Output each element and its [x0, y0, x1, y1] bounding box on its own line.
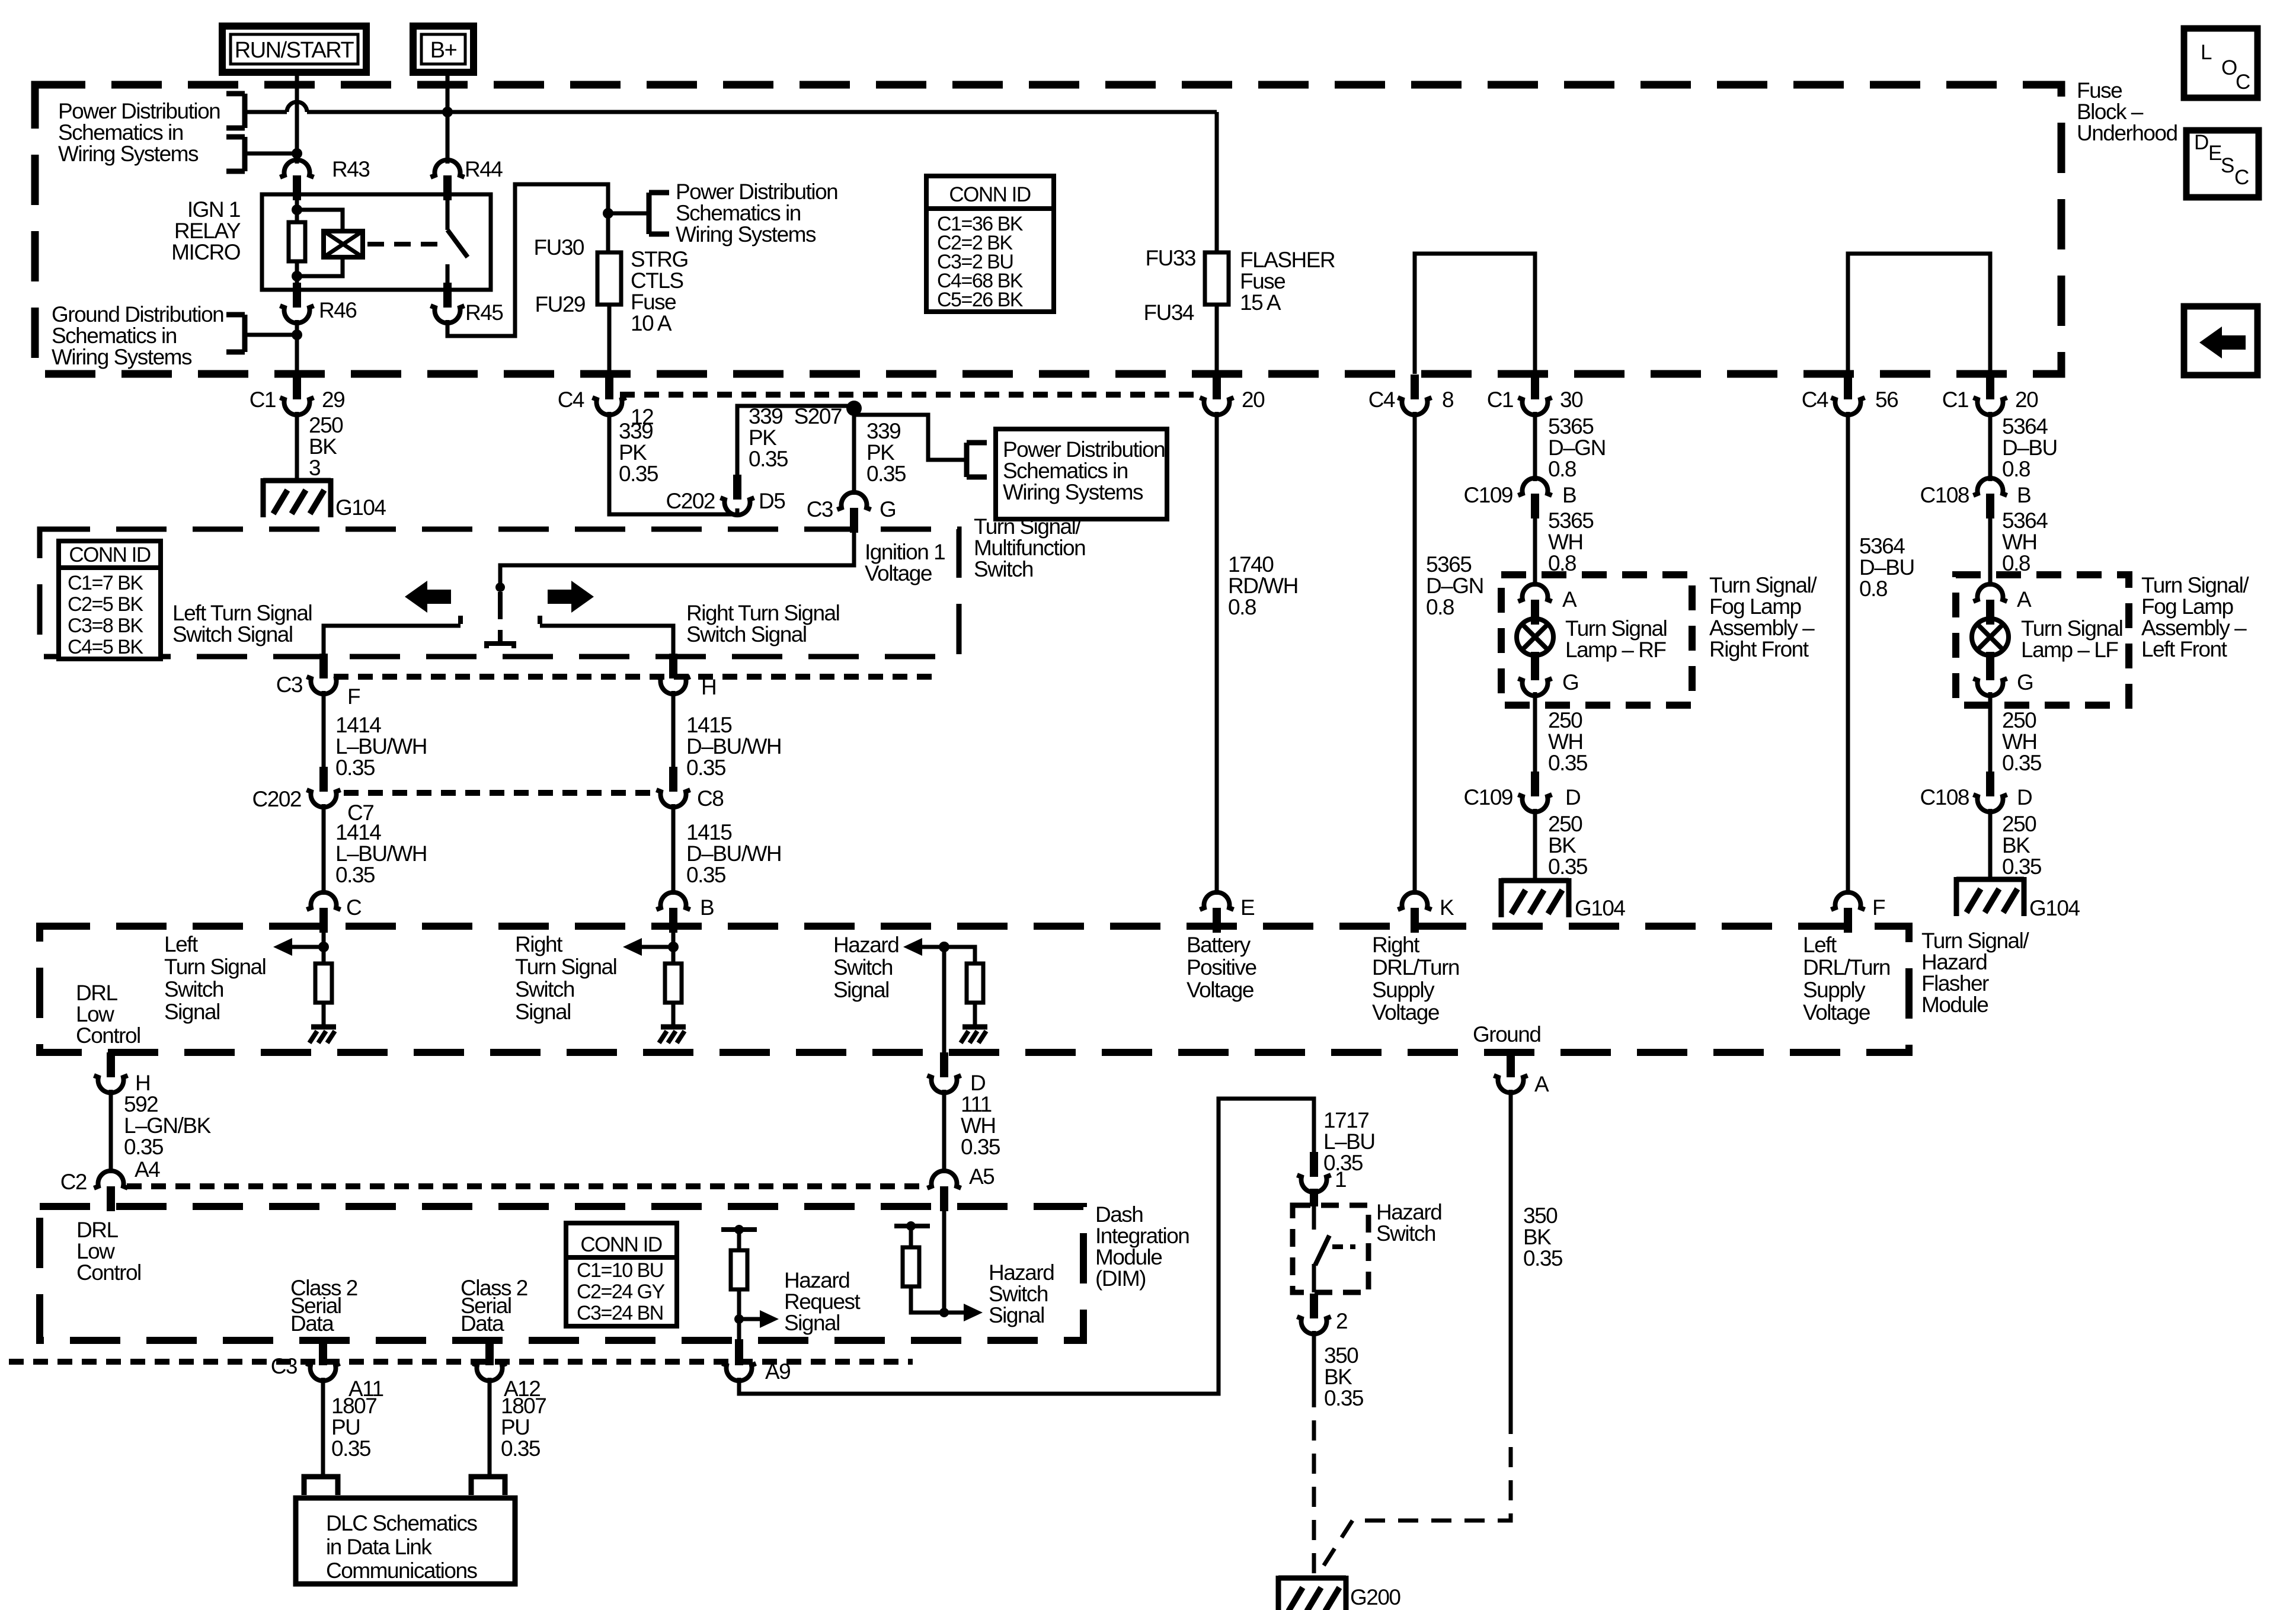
- connector flasher terminal E: [1200, 892, 1234, 933]
- svg-text:1415: 1415: [686, 820, 732, 844]
- node hazard request supply: [734, 1225, 744, 1234]
- svg-text:1807: 1807: [501, 1394, 546, 1418]
- svg-text:A9: A9: [765, 1359, 790, 1384]
- svg-text:C2: C2: [60, 1170, 87, 1194]
- svg-text:PK: PK: [749, 425, 777, 450]
- arrow right turn signal: [623, 938, 673, 956]
- svg-text:5364: 5364: [1859, 534, 1905, 558]
- hazard request resistor: [731, 1250, 747, 1289]
- wire D5 up to S207 junction: [737, 406, 854, 476]
- svg-text:0.35: 0.35: [619, 462, 658, 486]
- svg-text:5365: 5365: [1548, 508, 1594, 533]
- svg-text:0.8: 0.8: [1859, 577, 1887, 601]
- svg-text:C4: C4: [1368, 388, 1395, 412]
- svg-text:L–GN/BK: L–GN/BK: [124, 1113, 212, 1138]
- svg-text:30: 30: [1560, 388, 1583, 412]
- connector flasher terminal F: [1831, 892, 1865, 933]
- svg-text:0.35: 0.35: [1523, 1246, 1563, 1270]
- right turn arrow: [548, 581, 594, 613]
- svg-text:Schematics in: Schematics in: [676, 201, 801, 225]
- label 250 WH 0.35 (RF): [1548, 708, 1588, 775]
- wire B+ feed down to relay: [446, 72, 450, 164]
- connector C3 (DIM) terminal A11: [306, 1339, 340, 1381]
- connector hazard switch terminal 1: [1297, 1152, 1331, 1192]
- connector C3 terminal H (switch): [657, 654, 690, 694]
- label 5365 D-GN 0.8: [1548, 414, 1606, 481]
- wire left turn contact to C3-F: [324, 626, 461, 657]
- svg-text:G: G: [880, 497, 896, 521]
- svg-text:S207: S207: [794, 404, 842, 428]
- svg-text:FU29: FU29: [535, 292, 585, 316]
- wire ground reference to relay return: [245, 333, 297, 337]
- svg-text:Voltage: Voltage: [1803, 1000, 1870, 1025]
- svg-text:Schematics in: Schematics in: [52, 324, 177, 348]
- label H (switch): [701, 675, 716, 699]
- svg-text:Left: Left: [1803, 933, 1837, 957]
- label G (RF): [1562, 670, 1578, 694]
- label A (RF): [1562, 587, 1577, 612]
- connector flasher terminal B: [657, 892, 690, 933]
- label A12: [504, 1377, 540, 1401]
- label FU29: [535, 292, 585, 316]
- label F (flasher): [1872, 895, 1885, 920]
- wire coil winding branch top: [297, 210, 343, 231]
- node relay coil bottom: [292, 271, 302, 281]
- label Hazard Switch Signal (flasher): [833, 933, 898, 1002]
- svg-text:C3=8 BK: C3=8 BK: [68, 614, 143, 637]
- svg-text:Switch Signal: Switch Signal: [686, 622, 807, 646]
- label Battery Positive Voltage: [1187, 933, 1256, 1002]
- label DRL Low Control (flasher): [76, 981, 140, 1048]
- wire hazard request resistor to node: [737, 1230, 741, 1340]
- label 1807 PU 0.35 (A11): [331, 1394, 376, 1461]
- svg-text:Ignition 1: Ignition 1: [865, 540, 945, 564]
- fuse FU33/FU34 FLASHER: [1205, 252, 1229, 305]
- connector terminal 20: [1200, 375, 1234, 415]
- svg-text:C1: C1: [1487, 388, 1513, 412]
- svg-text:C3=24 BN: C3=24 BN: [577, 1302, 663, 1324]
- label D (C109): [1565, 785, 1580, 809]
- svg-text:DRL: DRL: [76, 981, 117, 1005]
- svg-text:0.35: 0.35: [2002, 854, 2042, 879]
- hazard switch fixed contact: [1312, 1205, 1316, 1230]
- conn id table (underhood fuse block): [926, 176, 1054, 312]
- label 5364 D-BU 0.8: [2002, 414, 2057, 481]
- svg-text:H: H: [701, 675, 716, 699]
- svg-text:O: O: [2221, 56, 2237, 79]
- off-page bracket A11: [304, 1477, 338, 1495]
- wire RUN/START feed down to relay: [295, 72, 299, 164]
- svg-text:C202: C202: [252, 787, 301, 811]
- off-page reference power distribution (S207): [967, 443, 987, 477]
- label DRL Low Control (DIM): [76, 1218, 141, 1285]
- node FU30 tap: [603, 208, 613, 219]
- label C109 (D): [1464, 785, 1512, 809]
- svg-text:Left: Left: [164, 932, 199, 956]
- connector lamp RF terminal G: [1518, 678, 1552, 696]
- off-page reference to Power Distribution (ign wire): [226, 137, 245, 171]
- label C2: [60, 1170, 87, 1194]
- svg-text:Battery: Battery: [1187, 933, 1251, 957]
- label 1414 L-BU/WH 0.35 (upper): [335, 713, 427, 780]
- label Right Turn Signal Switch Signal (switch): [686, 601, 839, 646]
- wire hazard input resistor branch: [944, 947, 975, 964]
- svg-text:Assembly –: Assembly –: [1709, 616, 1815, 640]
- svg-text:C5=26 BK: C5=26 BK: [937, 289, 1024, 311]
- svg-text:Communications: Communications: [326, 1558, 478, 1583]
- svg-text:C1=10 BU: C1=10 BU: [577, 1259, 663, 1282]
- svg-text:B: B: [1562, 483, 1576, 507]
- label C (flasher): [346, 895, 362, 920]
- label 5364 D-BU 0.8 (supply): [1859, 534, 1914, 601]
- label 111 WH 0.35: [961, 1092, 1000, 1159]
- wire ground A down: [1509, 1090, 1513, 1414]
- svg-text:DRL/Turn: DRL/Turn: [1803, 955, 1890, 980]
- label Ground Distribution Schematics in Wiring Systems: [52, 302, 223, 369]
- svg-text:Supply: Supply: [1372, 978, 1435, 1002]
- svg-text:H: H: [135, 1071, 150, 1095]
- ground G104 (left): [263, 478, 331, 517]
- wire to power distribution reference: [608, 212, 649, 216]
- svg-text:Power Distribution: Power Distribution: [676, 180, 837, 204]
- label Ignition 1 Voltage: [865, 540, 945, 585]
- label G: [880, 497, 896, 521]
- wire C1-30 to C109-B: [1533, 412, 1537, 481]
- svg-text:in Data Link: in Data Link: [326, 1535, 432, 1559]
- svg-text:Turn Signal/: Turn Signal/: [974, 514, 1082, 539]
- label Ground: [1473, 1022, 1540, 1046]
- label D5: [759, 489, 785, 513]
- svg-text:250: 250: [1548, 708, 1582, 732]
- wire H to C202-C8: [671, 691, 676, 769]
- svg-text:C4: C4: [1802, 388, 1828, 412]
- label Turn Signal/Hazard Flasher Module: [1921, 929, 2029, 1017]
- svg-text:0.8: 0.8: [1426, 595, 1454, 619]
- label 5365 WH 0.8: [1548, 508, 1594, 575]
- label 30: [1560, 388, 1583, 412]
- svg-text:0.35: 0.35: [501, 1436, 541, 1461]
- svg-text:Assembly –: Assembly –: [2141, 616, 2247, 640]
- svg-text:350: 350: [1523, 1204, 1558, 1228]
- svg-text:BK: BK: [2002, 833, 2030, 857]
- svg-text:5364: 5364: [2002, 414, 2048, 438]
- label Left Turn Signal Switch Signal: [172, 601, 312, 646]
- svg-text:Switch: Switch: [833, 955, 893, 980]
- svg-text:Data: Data: [461, 1311, 504, 1336]
- conn id table (multifunction switch): [59, 541, 161, 659]
- switch left contact: [458, 616, 463, 624]
- svg-text:0.35: 0.35: [331, 1436, 371, 1461]
- back-arrow reference box: [2184, 306, 2257, 375]
- svg-text:Hazard: Hazard: [989, 1260, 1054, 1285]
- arrow hazard switch signal: [903, 938, 944, 956]
- svg-text:Fog Lamp: Fog Lamp: [2141, 594, 2234, 619]
- svg-text:Hazard: Hazard: [1376, 1200, 1441, 1224]
- svg-text:Multifunction: Multifunction: [974, 536, 1085, 560]
- label Turn Signal/Fog Lamp Assembly - Left Front: [2141, 573, 2249, 661]
- label C4 (12): [558, 388, 584, 412]
- left turn arrow: [405, 581, 451, 613]
- svg-text:Switch: Switch: [515, 977, 574, 1001]
- label A11: [348, 1377, 383, 1401]
- turn signal/multifunction switch dashed box: [40, 529, 959, 657]
- fuse FU30/FU29 STRG CTLS: [597, 252, 621, 305]
- svg-text:PU: PU: [501, 1415, 529, 1439]
- label G104 (left): [335, 495, 386, 520]
- label C3 (DIM): [271, 1354, 297, 1378]
- dash integration module dashed box: [40, 1206, 1083, 1340]
- svg-text:A5: A5: [969, 1164, 994, 1189]
- svg-text:Dash: Dash: [1095, 1202, 1143, 1227]
- wire lamp RF G to C109-D: [1533, 692, 1537, 773]
- svg-text:0.35: 0.35: [866, 462, 906, 486]
- svg-text:Voltage: Voltage: [865, 561, 932, 585]
- wire battery feed 20 to E: [1215, 412, 1219, 895]
- connector C1 terminal A5: [928, 1171, 961, 1211]
- svg-text:Switch: Switch: [1376, 1221, 1435, 1246]
- label FU30: [534, 235, 584, 260]
- svg-text:Fuse: Fuse: [631, 290, 676, 314]
- svg-text:Right: Right: [515, 932, 563, 956]
- label Power Distribution Schematics in Wiring Systems (top left): [58, 99, 220, 166]
- label Left Turn Signal Switch Signal (flasher): [164, 932, 266, 1024]
- connector flasher terminal H: [94, 1052, 128, 1093]
- svg-text:Switch: Switch: [989, 1282, 1048, 1306]
- svg-text:BK: BK: [1324, 1365, 1352, 1389]
- svg-text:5365: 5365: [1548, 414, 1594, 438]
- connector C202 terminal D5: [721, 475, 754, 515]
- svg-text:1: 1: [1335, 1167, 1346, 1192]
- label 250 BK 0.35 (LF): [2002, 812, 2042, 879]
- svg-text:Integration: Integration: [1095, 1224, 1189, 1248]
- svg-text:Right Turn Signal: Right Turn Signal: [686, 601, 839, 625]
- arrow hazard request signal: [739, 1310, 779, 1328]
- relay switch blade: [447, 230, 468, 257]
- svg-text:0.8: 0.8: [1548, 457, 1576, 481]
- connector C2 terminal A4: [94, 1171, 128, 1211]
- svg-text:D–BU: D–BU: [2002, 436, 2057, 460]
- svg-text:Power Distribution: Power Distribution: [1003, 437, 1165, 462]
- svg-text:B+: B+: [430, 38, 457, 63]
- svg-text:Switch Signal: Switch Signal: [172, 622, 293, 646]
- svg-text:Switch: Switch: [164, 977, 223, 1001]
- svg-text:Schematics in: Schematics in: [58, 120, 183, 145]
- label C108 (D): [1920, 785, 1969, 809]
- svg-text:Fuse: Fuse: [1240, 269, 1285, 293]
- svg-text:PK: PK: [866, 440, 895, 465]
- label B (flasher): [700, 895, 714, 920]
- svg-text:C109: C109: [1464, 483, 1512, 507]
- svg-text:L–BU: L–BU: [1323, 1129, 1375, 1154]
- svg-text:A: A: [2017, 587, 2032, 612]
- svg-text:0.8: 0.8: [2002, 457, 2030, 481]
- conn id table (DIM): [566, 1223, 677, 1326]
- svg-text:C: C: [346, 895, 362, 920]
- wire H to C2-A4: [109, 1090, 113, 1173]
- wire S207 down to C3-G: [852, 415, 856, 495]
- label D (C108): [2017, 785, 2032, 809]
- svg-text:1415: 1415: [686, 713, 732, 737]
- ground G104 (left front): [1956, 877, 2024, 916]
- svg-text:F: F: [1872, 895, 1885, 920]
- wire hazard 2 dashed to G200: [1312, 1387, 1316, 1578]
- svg-text:A4: A4: [135, 1157, 160, 1182]
- svg-text:Hazard: Hazard: [833, 933, 898, 957]
- svg-text:Signal: Signal: [833, 978, 889, 1002]
- svg-text:D–GN: D–GN: [1548, 436, 1606, 460]
- label 8: [1442, 388, 1453, 412]
- svg-text:8: 8: [1442, 388, 1453, 412]
- off-page bracket A12: [471, 1477, 505, 1495]
- relay switch lower contact: [446, 264, 450, 290]
- connector lamp LF terminal A: [1974, 584, 2007, 625]
- svg-text:Supply: Supply: [1803, 978, 1866, 1002]
- label 1740 RD/WH 0.8: [1228, 552, 1298, 619]
- svg-text:WH: WH: [2002, 729, 2037, 754]
- connector C109 terminal B: [1518, 478, 1552, 518]
- note box Power Distribution Schematics in Wiring Systems: [996, 429, 1167, 519]
- label C8: [697, 786, 723, 811]
- hazard switch dashed box: [1293, 1205, 1368, 1292]
- wire FU29 to C4-12: [607, 305, 612, 374]
- svg-text:CONN ID: CONN ID: [69, 543, 151, 566]
- connector flasher terminal A: [1494, 1052, 1528, 1093]
- label 12: [631, 405, 653, 429]
- wire FU33 feed: [1215, 112, 1219, 252]
- svg-text:0.35: 0.35: [961, 1135, 1000, 1159]
- svg-text:Wiring Systems: Wiring Systems: [52, 345, 192, 369]
- svg-text:0.35: 0.35: [2002, 751, 2042, 775]
- svg-text:0.35: 0.35: [335, 863, 375, 887]
- IGN 1 relay box: [262, 194, 491, 290]
- svg-text:R45: R45: [465, 300, 503, 325]
- svg-text:B: B: [2017, 483, 2030, 507]
- LOC reference box: [2184, 28, 2257, 98]
- svg-text:0.35: 0.35: [1548, 751, 1588, 775]
- svg-text:(DIM): (DIM): [1095, 1266, 1146, 1291]
- svg-text:FLASHER: FLASHER: [1240, 248, 1335, 272]
- node hazard request output: [734, 1314, 744, 1324]
- connector C108 terminal B: [1974, 478, 2007, 518]
- label FU34: [1144, 300, 1194, 325]
- svg-text:Hazard: Hazard: [1921, 950, 1987, 974]
- label G104 (LF): [2029, 896, 2080, 920]
- hazard switch blade: [1315, 1235, 1329, 1265]
- wire relay coil bottom: [295, 261, 299, 290]
- connector C202 terminal C8: [657, 767, 690, 807]
- svg-text:250: 250: [309, 413, 343, 437]
- wire C108-D to ground: [1988, 809, 1993, 879]
- svg-text:Block –: Block –: [2077, 100, 2144, 124]
- node junction on RUN/START wire: [292, 148, 302, 159]
- wire C7 to flasher C: [322, 804, 326, 895]
- label R43: [332, 157, 369, 181]
- wire 339 PK from C4-12 to S207: [609, 412, 737, 514]
- wire left turn input: [322, 926, 326, 964]
- svg-text:1414: 1414: [335, 713, 381, 737]
- svg-text:250: 250: [1548, 812, 1582, 836]
- label H (DRL): [135, 1071, 150, 1095]
- svg-text:Control: Control: [76, 1260, 141, 1285]
- connector C4 terminal 8: [1398, 375, 1432, 415]
- switch harness dotted boundary: [334, 674, 939, 680]
- label Hazard Request Signal: [784, 1268, 861, 1335]
- connector R46: [280, 283, 314, 323]
- connector flasher terminal K: [1398, 892, 1432, 933]
- turn signal/fog lamp assembly LF dashed box: [1956, 575, 2129, 705]
- svg-text:Hazard: Hazard: [784, 1268, 849, 1292]
- svg-text:15 A: 15 A: [1240, 290, 1281, 315]
- label 339 PK 0.35 (second): [749, 404, 788, 471]
- svg-text:BK: BK: [1523, 1225, 1552, 1249]
- label 350 BK 0.35 (hazard): [1324, 1343, 1364, 1410]
- off-page reference to Power Distribution (rail): [226, 94, 245, 128]
- ground right turn (internal): [659, 1027, 686, 1043]
- label 20: [1242, 388, 1265, 412]
- arrow hazard switch signal (DIM): [944, 1304, 983, 1321]
- svg-text:0.35: 0.35: [1324, 1386, 1364, 1410]
- svg-text:339: 339: [866, 419, 900, 443]
- svg-text:FU33: FU33: [1146, 246, 1195, 270]
- svg-text:Ground: Ground: [1473, 1022, 1540, 1046]
- svg-text:S: S: [2221, 154, 2234, 177]
- svg-text:0.35: 0.35: [686, 863, 726, 887]
- svg-text:Left Front: Left Front: [2141, 637, 2228, 661]
- svg-text:C109: C109: [1464, 785, 1512, 809]
- wire hazard input down to D: [942, 947, 946, 1052]
- left turn input resistor: [315, 964, 332, 1003]
- label C1 (30): [1487, 388, 1513, 412]
- ground G104 (right front): [1501, 878, 1569, 917]
- wire F to C202-C7: [322, 691, 326, 769]
- svg-text:E: E: [2208, 142, 2221, 165]
- svg-text:D: D: [1565, 785, 1580, 809]
- svg-text:C: C: [2234, 166, 2249, 189]
- svg-text:0.35: 0.35: [749, 447, 788, 471]
- wire hazard switch resistor leg: [911, 1226, 944, 1313]
- wire lamp RF bulb stub: [1531, 652, 1539, 680]
- label K: [1440, 895, 1454, 920]
- svg-text:339: 339: [749, 404, 782, 428]
- svg-text:C2=5 BK: C2=5 BK: [68, 593, 143, 616]
- svg-text:Signal: Signal: [784, 1311, 840, 1335]
- DIM harness dotted boundary: [9, 1359, 913, 1365]
- svg-text:L–BU/WH: L–BU/WH: [335, 841, 427, 866]
- label circuit 250 BK 3: [309, 413, 343, 480]
- svg-text:0.35: 0.35: [124, 1135, 164, 1159]
- connector R44: [431, 160, 465, 200]
- label F: [347, 684, 360, 709]
- svg-text:C1=7 BK: C1=7 BK: [68, 572, 143, 594]
- ground G200: [1278, 1576, 1346, 1610]
- wire C109-D to ground: [1533, 809, 1537, 881]
- svg-text:R46: R46: [319, 298, 356, 322]
- wire hazard resistor to ground: [973, 1003, 977, 1027]
- svg-text:1807: 1807: [331, 1394, 376, 1418]
- label R46: [319, 298, 356, 322]
- label E: [1240, 895, 1255, 920]
- svg-text:RUN/START: RUN/START: [235, 38, 354, 63]
- svg-text:2: 2: [1336, 1309, 1347, 1333]
- ground hazard (internal): [961, 1027, 987, 1043]
- hazard request internal supply bar: [721, 1227, 757, 1232]
- wire C8 to flasher B: [671, 804, 676, 895]
- svg-text:G104: G104: [2029, 896, 2080, 920]
- label Left DRL/Turn Supply Voltage: [1803, 933, 1890, 1025]
- label A4: [135, 1157, 160, 1182]
- wire R45 to FU29: [447, 184, 608, 336]
- node hazard switch supply: [906, 1221, 916, 1231]
